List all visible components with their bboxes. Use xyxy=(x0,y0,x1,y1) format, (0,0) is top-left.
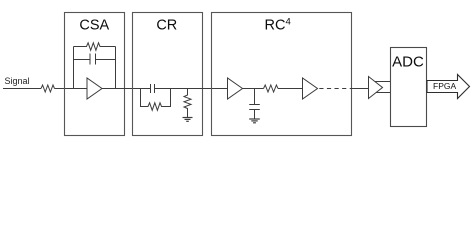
FPGA block arrow xyxy=(427,75,470,99)
block ADC xyxy=(391,48,427,127)
resistor CR parallel xyxy=(141,89,171,111)
op-amp buffer xyxy=(369,77,383,99)
wire CSA output to CR series capacitor xyxy=(102,88,151,90)
resistor input series xyxy=(41,85,55,92)
capacitor RC4 shunt to ground xyxy=(249,89,260,120)
ground CR xyxy=(183,118,193,122)
svg-text:CR: CR xyxy=(156,18,177,34)
wire dashed continuation xyxy=(319,88,351,90)
resistor CSA feedback xyxy=(74,43,116,51)
svg-text:FPGA: FPGA xyxy=(433,81,456,91)
svg-text:ADC: ADC xyxy=(392,54,424,71)
capacitor CSA feedback xyxy=(74,54,116,65)
svg-text:CSA: CSA xyxy=(79,18,109,34)
block CR xyxy=(133,13,203,136)
op-amp RC4 second xyxy=(303,78,318,99)
wire feedback right vertical xyxy=(115,47,117,89)
resistor RC4 series xyxy=(264,85,279,92)
wire buffer output bottom to ADC xyxy=(372,92,391,94)
resistor CR shunt to ground xyxy=(184,89,191,118)
block RC4 xyxy=(212,13,352,136)
op-amp CSA xyxy=(87,78,102,99)
wire feedback left vertical xyxy=(73,47,75,89)
wire to CSA amp input xyxy=(55,88,88,90)
wire RC4 resistor to amp2 xyxy=(278,88,303,90)
svg-text:Signal: Signal xyxy=(5,76,30,86)
wire RC4 amp1 output to resistor xyxy=(243,88,264,90)
capacitor CR series xyxy=(151,84,155,93)
op-amp RC4 first xyxy=(228,78,243,99)
wire buffer output top to ADC xyxy=(372,81,391,83)
wire RC4 exit to buffer amp xyxy=(352,88,369,90)
ground RC4 xyxy=(249,119,260,123)
block CSA xyxy=(65,13,125,136)
wire CR output to RC4 first amp xyxy=(155,88,228,90)
wire input xyxy=(3,88,41,90)
